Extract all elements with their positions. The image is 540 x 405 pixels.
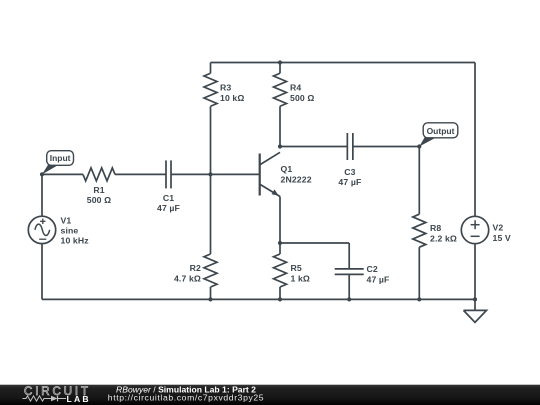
- svg-text:Input: Input: [50, 153, 71, 163]
- svg-text:1 kΩ: 1 kΩ: [291, 274, 311, 284]
- svg-text:http://circuitlab.com/c7pxvddr: http://circuitlab.com/c7pxvddr3py25: [108, 393, 264, 403]
- svg-text:R5: R5: [291, 263, 302, 273]
- svg-text:C1: C1: [163, 193, 174, 203]
- svg-text:V2: V2: [493, 223, 504, 233]
- svg-text:500 Ω: 500 Ω: [87, 195, 111, 205]
- svg-text:R8: R8: [430, 223, 441, 233]
- svg-text:Q1: Q1: [281, 164, 293, 174]
- svg-text:R4: R4: [290, 83, 301, 93]
- svg-text:2.2 kΩ: 2.2 kΩ: [430, 234, 457, 244]
- svg-text:Output: Output: [427, 126, 455, 136]
- svg-text:sine: sine: [61, 226, 79, 236]
- svg-text:47 µF: 47 µF: [157, 203, 180, 213]
- svg-text:500 Ω: 500 Ω: [290, 93, 314, 103]
- svg-text:V1: V1: [61, 215, 72, 225]
- svg-text:R1: R1: [93, 185, 104, 195]
- svg-text:15 V: 15 V: [493, 233, 511, 243]
- svg-text:2N2222: 2N2222: [281, 175, 312, 185]
- svg-text:4.7 kΩ: 4.7 kΩ: [174, 274, 201, 284]
- svg-text:10 kHz: 10 kHz: [61, 236, 90, 246]
- svg-text:R2: R2: [190, 263, 201, 273]
- svg-text:C3: C3: [344, 167, 355, 177]
- svg-text:47 µF: 47 µF: [338, 177, 361, 187]
- svg-text:LAB: LAB: [67, 394, 91, 404]
- svg-text:47 µF: 47 µF: [367, 275, 390, 285]
- svg-text:C2: C2: [367, 264, 378, 274]
- svg-text:10 kΩ: 10 kΩ: [220, 93, 244, 103]
- svg-text:R3: R3: [220, 83, 231, 93]
